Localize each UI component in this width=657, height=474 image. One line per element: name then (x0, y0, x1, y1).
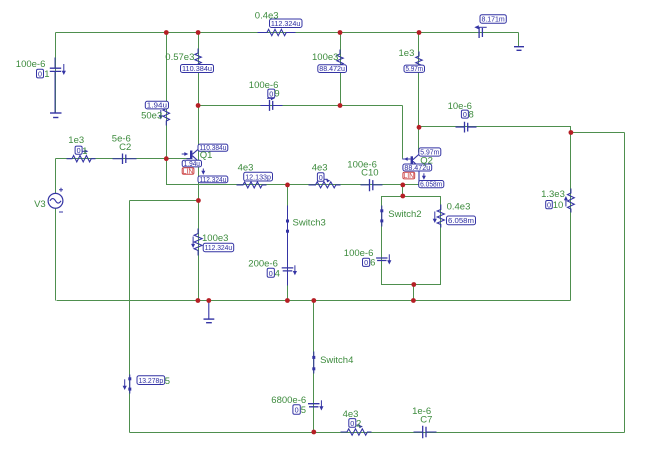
value 6.058m of resistor 0.4e3 loop (447, 216, 476, 225)
wire node B horizontal y=105 (199, 105, 403, 107)
value boxes (137, 15, 506, 385)
svg-text:1.94u: 1.94u (184, 159, 200, 168)
svg-text:100e-6: 100e-6 (344, 248, 374, 259)
value 112.324u of resistor 100e3 mid (203, 243, 234, 252)
[0] boxes (37, 69, 564, 430)
node top x=339.5 (338, 30, 343, 35)
wire mid row y=184.4 (199, 184, 419, 186)
wire Switch4 branch x=313.3 (313, 301, 315, 433)
value 5.97m of Q2 collector (419, 148, 441, 157)
value 13.278p of Switch5 (137, 376, 165, 385)
svg-text:5: 5 (301, 405, 306, 416)
transistor Q1 (182, 147, 206, 175)
LIN box of Q2 (403, 172, 415, 180)
node C2 base (164, 156, 169, 161)
wire bottom rail (130, 432, 625, 434)
value 112.324u of Q1 emitter (198, 175, 228, 184)
value 12.133p of resistor 4e3 (244, 172, 273, 181)
init box of C9 (268, 89, 280, 100)
svg-text:0.4e3: 0.4e3 (447, 202, 471, 213)
svg-text:4e3: 4e3 (312, 163, 328, 174)
node Switch2 bottom (411, 282, 416, 287)
LIN box of Q1 (182, 168, 194, 176)
capacitor C1 100e-6 (50, 58, 66, 113)
wire ground stub top right (518, 33, 520, 47)
wire input row y=158.2 (56, 158, 191, 160)
capacitor C10 100e-6 (361, 179, 383, 191)
init box of capacitor 100e-6 loop (363, 258, 376, 269)
init box of capacitor 200e-6 (267, 268, 280, 279)
capacitor C7 1e-6 (414, 426, 437, 439)
svg-text:6: 6 (370, 258, 375, 269)
node y184 x=402.3 (400, 183, 405, 188)
svg-text:6800e-6: 6800e-6 (271, 395, 306, 406)
svg-text:C10: C10 (361, 167, 378, 178)
wire Q2 emitter to Switch2 (402, 185, 404, 197)
node Q2 collector (417, 125, 422, 130)
svg-text:110.384u: 110.384u (182, 64, 212, 73)
svg-text:1: 1 (44, 69, 49, 80)
node Switch2 top (400, 194, 405, 199)
value 6.058m of Q2 emitter (419, 180, 444, 189)
svg-text:Q1: Q1 (200, 150, 213, 161)
svg-text:5.97m: 5.97m (405, 64, 423, 73)
init box of C8 (461, 110, 473, 121)
resistor 0.57e3 (195, 49, 201, 69)
svg-text:100e3: 100e3 (202, 233, 228, 244)
value 110.384u of Q1 collector (198, 143, 228, 152)
wire top rail (56, 32, 519, 34)
resistor 50e3 (159, 105, 170, 126)
wire mid rail y=300 (57, 300, 571, 302)
wire right edge vertical (624, 133, 626, 433)
wire Switch3 branch x=287 (287, 185, 289, 301)
init box of resistor 4e3 bottom (349, 419, 361, 430)
svg-text:5: 5 (165, 376, 170, 387)
svg-text:200e-6: 200e-6 (248, 259, 278, 270)
wire V3 top lead (55, 159, 57, 194)
switch Switch5 (left) (123, 375, 132, 394)
node right jog (569, 130, 574, 135)
resistor 4e3 (12.133p) (237, 182, 267, 188)
wire jog to right edge (571, 132, 625, 134)
value 5.97m of resistor 1e3 (404, 64, 425, 73)
value 112.324u of resistor 0.4e3 (270, 19, 303, 28)
svg-text:12.133p: 12.133p (245, 172, 271, 181)
resistor 100e3 (top) (337, 50, 343, 70)
value 1.94u of resistor 50e3 (145, 101, 168, 110)
resistor 1e3 (input) (67, 149, 96, 162)
svg-text:6.058m: 6.058m (448, 216, 474, 225)
init box of capacitor 6800e-6 (293, 405, 306, 416)
svg-text:Switch3: Switch3 (293, 218, 326, 229)
wire Switch2 loop rectangle (382, 197, 441, 285)
node bottom rail (311, 430, 316, 435)
wire 100e3 branch x=339.5 (340, 33, 342, 106)
svg-text:100e3: 100e3 (312, 52, 338, 63)
node top x=418.5 (417, 30, 422, 35)
switch Switch3 (286, 206, 289, 286)
wire Q2 base drop (402, 106, 404, 159)
svg-text:C2: C2 (119, 142, 131, 153)
wire node A vertical x=165.8 (166, 33, 168, 159)
svg-text:0.57e3: 0.57e3 (165, 52, 194, 63)
svg-text:0: 0 (77, 146, 81, 155)
svg-text:V3: V3 (34, 199, 46, 210)
svg-text:Q2: Q2 (420, 156, 433, 167)
capacitor C9 100e-6 (261, 96, 283, 111)
ground top right (514, 47, 524, 51)
init box of C1 (37, 69, 50, 80)
svg-text:13.278p: 13.278p (138, 376, 163, 385)
ground below mid rail (204, 301, 215, 323)
svg-text:100e-6: 100e-6 (249, 80, 279, 91)
node y105 x=339.5 (338, 103, 343, 108)
source V3 (48, 188, 63, 212)
init box of resistor 4e3 mid (317, 173, 324, 182)
capacitor C8 10e-6 (456, 122, 477, 133)
wire 1e3 branch x=418.5 (418, 33, 420, 128)
node rail x=286.9 (285, 298, 290, 303)
svg-text:C7: C7 (420, 414, 432, 425)
wire 100e3 branch to rail (198, 201, 200, 301)
resistor 4e3 (mid) (309, 179, 341, 188)
node top x=197.6 (196, 30, 201, 35)
switch Switch2 (380, 206, 383, 227)
svg-text:1.3e3: 1.3e3 (541, 189, 565, 200)
ground below C1 (50, 113, 62, 118)
svg-text:Switch2: Switch2 (388, 209, 421, 220)
resistor 1.3e3 (564, 189, 574, 213)
svg-text:1.94u: 1.94u (147, 101, 167, 110)
wire Q1 collector-emitter column (198, 106, 200, 201)
wire base-emitter L link (167, 159, 199, 185)
wire Switch2 bottom drop (413, 285, 415, 301)
resistor 4e3 (bottom) (341, 425, 372, 436)
init box of resistor 1.3e3 (546, 200, 564, 211)
node y105 x=197.6 (196, 103, 201, 108)
resistor 1e3 (top) (416, 52, 422, 72)
value 8.171m of capacitor top right (480, 15, 506, 24)
svg-text:0: 0 (350, 419, 354, 428)
wire C1 branch (55, 33, 57, 113)
capacitor C2 5e-6 (113, 154, 137, 165)
node rail x=197.4 (196, 298, 201, 303)
svg-text:0: 0 (547, 201, 551, 210)
wire V3 bottom lead (55, 209, 57, 301)
node y184 x=287 (285, 183, 290, 188)
svg-text:112.324u: 112.324u (205, 243, 233, 252)
resistor 100e3 (mid) (191, 229, 202, 256)
svg-text:0: 0 (295, 406, 299, 415)
svg-text:88.472u: 88.472u (319, 64, 345, 73)
value 1.94u of Q1 base (182, 159, 201, 168)
switch Switch4 (312, 352, 315, 374)
svg-text:0: 0 (269, 269, 273, 278)
svg-text:LIN: LIN (183, 168, 194, 175)
capacitor 8.171m (top right) (474, 25, 486, 38)
value 88.472u of resistor 100e3 (318, 64, 347, 73)
svg-text:1: 1 (82, 146, 87, 157)
node rail x=208.3 (206, 298, 211, 303)
svg-text:Switch4: Switch4 (320, 355, 353, 366)
svg-text:1e3: 1e3 (68, 135, 84, 146)
init box of resistor 1e3 input (75, 146, 87, 157)
capacitor 200e-6 (282, 265, 297, 275)
svg-text:LIN: LIN (403, 173, 414, 180)
svg-text:4e3: 4e3 (343, 409, 359, 420)
capacitor 6800e-6 (308, 400, 324, 410)
svg-text:1e3: 1e3 (399, 48, 415, 59)
svg-text:0: 0 (38, 70, 42, 79)
green labels (16, 10, 565, 425)
svg-text:0: 0 (319, 173, 323, 182)
wire top right horizontal to jog (419, 127, 571, 133)
svg-text:4: 4 (275, 269, 280, 280)
capacitor 100e-6 (Switch2 loop) (376, 254, 391, 264)
wire left long vertical x=129.3 (129, 201, 131, 433)
node rail x=313.3 (311, 298, 316, 303)
svg-text:100e-6: 100e-6 (16, 59, 46, 70)
svg-text:10e-6: 10e-6 (448, 101, 472, 112)
node y200 (196, 198, 201, 203)
value 110.384u of resistor 0.57e3 (181, 64, 214, 73)
wire 1.3e3 branch x=570.4 (570, 133, 572, 301)
svg-text:0: 0 (364, 258, 368, 267)
wire 0.57e3 branch x=197.6 (198, 33, 200, 106)
svg-text:50e3: 50e3 (141, 110, 162, 121)
svg-text:10: 10 (553, 200, 564, 211)
transistor Q2 (402, 152, 426, 185)
svg-text:0.4e3: 0.4e3 (255, 10, 279, 21)
svg-text:6.058m: 6.058m (420, 180, 442, 189)
resistor 0.4e3 (Switch2 loop) (433, 205, 445, 228)
svg-text:8.171m: 8.171m (481, 15, 504, 24)
node top x=165.8 (164, 30, 169, 35)
value 88.472u of Q2 base (403, 163, 432, 172)
resistor 0.4e3 (top) (258, 29, 296, 35)
wire y=200 horizontal (130, 200, 199, 202)
svg-text:112.324u: 112.324u (200, 175, 227, 184)
svg-text:2: 2 (356, 419, 361, 430)
wire Q2 collector stub (418, 128, 420, 153)
svg-text:4e3: 4e3 (238, 162, 254, 173)
node rail x=412.9 (411, 298, 416, 303)
